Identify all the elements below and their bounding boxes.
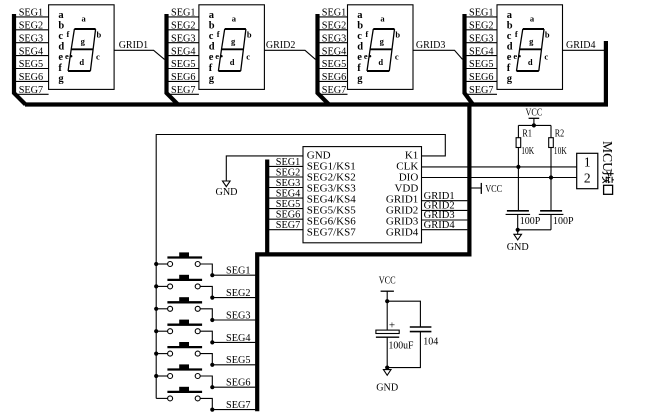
net GRID4 wire at U1 right xyxy=(422,219,468,231)
svg-text:10K: 10K xyxy=(521,146,534,157)
7-segment display DS4 body xyxy=(497,5,563,90)
push button S6 xyxy=(156,364,202,378)
svg-text:100P: 100P xyxy=(520,216,541,227)
ground symbol at U1 GND pin xyxy=(216,156,304,198)
svg-text:c: c xyxy=(58,31,63,42)
svg-text:f: f xyxy=(357,63,361,74)
svg-text:b: b xyxy=(395,30,400,40)
svg-text:SEG5: SEG5 xyxy=(322,58,347,70)
net SEG3 wire from S3 to key bus xyxy=(200,309,255,322)
net GRID2 wire from DS2 xyxy=(264,39,315,59)
svg-text:GRID2: GRID2 xyxy=(266,39,296,51)
svg-text:b: b xyxy=(58,21,64,32)
svg-text:e: e xyxy=(507,52,512,63)
svg-text:VCC: VCC xyxy=(485,184,502,195)
svg-text:d: d xyxy=(209,42,215,53)
svg-text:SEG4: SEG4 xyxy=(19,45,44,57)
svg-text:e: e xyxy=(513,51,517,61)
svg-text:SEG6: SEG6 xyxy=(19,71,44,83)
net SEG3 pin of DS4 xyxy=(465,32,498,44)
net SEG2 pin of DS1 xyxy=(14,20,49,32)
junction at C1 bottom xyxy=(516,228,520,232)
svg-text:SEG3: SEG3 xyxy=(322,32,347,44)
svg-text:d: d xyxy=(507,42,513,53)
svg-text:f: f xyxy=(365,29,368,39)
svg-text:d: d xyxy=(79,57,84,67)
net SEG4 wire from S4 to key bus xyxy=(200,331,255,344)
bus: horizontal main bus with GRID4 stub at right xyxy=(25,41,606,105)
net SEG6 pin of DS4 xyxy=(465,71,498,83)
svg-text:g: g xyxy=(209,73,215,84)
power VCC terminal at VDD pin xyxy=(472,183,503,195)
junction R2 on DIO net xyxy=(549,175,553,179)
net SEG5 pin of DS3 xyxy=(318,58,348,70)
junction on key rail row 6 xyxy=(154,374,158,378)
svg-text:SEG7: SEG7 xyxy=(19,84,44,96)
bus: display DS2 segment bus xyxy=(167,14,179,105)
push button S3 xyxy=(156,297,202,311)
svg-text:e: e xyxy=(65,51,69,61)
net GRID4 wire from DS4 xyxy=(563,39,606,51)
svg-text:SEG3: SEG3 xyxy=(469,32,494,44)
svg-text:g: g xyxy=(81,36,86,46)
svg-text:c: c xyxy=(395,52,399,62)
svg-text:b: b xyxy=(507,21,513,32)
svg-text:d: d xyxy=(528,57,533,67)
net SEG4 pin of DS4 xyxy=(465,45,498,57)
svg-text:d: d xyxy=(378,57,383,67)
svg-text:f: f xyxy=(58,63,62,74)
svg-text:c: c xyxy=(507,31,512,42)
svg-text:g: g xyxy=(231,36,236,46)
bus: vertical GRID bus right of U1, down and left to key bus xyxy=(257,105,469,412)
svg-text:f: f xyxy=(217,29,220,39)
net GRID3 wire at U1 right xyxy=(422,209,468,221)
svg-text:VCC: VCC xyxy=(526,107,543,118)
svg-text:SEG2: SEG2 xyxy=(226,287,251,299)
net GRID3 wire from DS3 xyxy=(413,39,463,59)
net SEG2 wire from S2 to key bus xyxy=(200,286,255,299)
wire VCC to R1 R2 tops xyxy=(518,124,551,126)
svg-text:d: d xyxy=(58,42,64,53)
svg-text:SEG7: SEG7 xyxy=(171,84,196,96)
svg-text:GRID4: GRID4 xyxy=(386,226,419,238)
svg-text:SEG5: SEG5 xyxy=(226,354,251,366)
svg-text:VCC: VCC xyxy=(379,276,396,287)
wire VCC node to C4 branch xyxy=(387,301,420,327)
junction R1 on CLK net xyxy=(516,165,520,169)
bus: display DS4 segment bus xyxy=(465,14,474,105)
push button S5 xyxy=(156,342,202,356)
svg-text:MCU: MCU xyxy=(600,141,615,172)
net SEG3 pin of DS1 xyxy=(14,32,49,44)
svg-text:g: g xyxy=(507,73,513,84)
svg-text:SEG6: SEG6 xyxy=(469,71,494,83)
svg-text:SEG3: SEG3 xyxy=(19,32,44,44)
junction on key rail row 1 xyxy=(154,262,158,266)
svg-text:f: f xyxy=(209,63,213,74)
svg-text:b: b xyxy=(545,30,550,40)
svg-text:b: b xyxy=(209,21,215,32)
net SEG1 pin of DS1 xyxy=(14,7,49,19)
capacitor C2 100P xyxy=(539,211,574,230)
net SEG5 wire from S5 to key bus xyxy=(200,354,255,367)
svg-text:R2: R2 xyxy=(555,128,565,139)
svg-text:g: g xyxy=(357,73,363,84)
net SEG4 pin of DS3 xyxy=(318,45,348,57)
7-segment display DS2 body xyxy=(199,5,265,90)
svg-text:SEG6: SEG6 xyxy=(171,71,196,83)
capacitor C1 100P xyxy=(506,211,541,230)
resistor R2 10K xyxy=(549,125,567,210)
svg-text:a: a xyxy=(209,10,215,21)
junction on key rail row 5 xyxy=(154,352,158,356)
net SEG6 wire from S6 to key bus xyxy=(200,376,255,389)
svg-text:f: f xyxy=(515,29,518,39)
svg-text:c: c xyxy=(246,52,250,62)
svg-text:e: e xyxy=(209,52,214,63)
svg-text:g: g xyxy=(380,36,385,46)
junction on key rail row 4 xyxy=(154,329,158,333)
svg-text:c: c xyxy=(544,52,548,62)
net GRID2 wire at U1 right xyxy=(422,200,468,212)
svg-text:SEG1: SEG1 xyxy=(171,7,196,19)
svg-text:GRID4: GRID4 xyxy=(424,219,455,231)
svg-text:2: 2 xyxy=(584,170,591,185)
svg-text:1: 1 xyxy=(584,154,591,169)
svg-text:SEG1: SEG1 xyxy=(469,7,494,19)
7-segment display DS1 body xyxy=(49,5,115,90)
net SEG5 wire at U1 left xyxy=(267,198,303,210)
svg-text:a: a xyxy=(232,13,237,23)
net CLK wire U1 to MCU connector pin 1 xyxy=(422,166,577,168)
label MCU interface (rotated) xyxy=(600,141,615,194)
svg-text:GND: GND xyxy=(216,187,238,198)
svg-text:e: e xyxy=(364,51,368,61)
net SEG2 pin of DS2 xyxy=(167,20,199,32)
svg-text:SEG5: SEG5 xyxy=(171,58,196,70)
svg-text:SEG7: SEG7 xyxy=(469,84,494,96)
svg-text:g: g xyxy=(58,73,64,84)
net SEG2 pin of DS3 xyxy=(318,20,348,32)
svg-text:SEG4: SEG4 xyxy=(171,45,196,57)
net SEG7 wire at U1 left xyxy=(267,219,303,231)
ground symbol below C1 C2 xyxy=(507,230,529,253)
net SEG1 pin of DS3 xyxy=(318,7,348,19)
push button S2 xyxy=(156,275,202,289)
svg-text:b: b xyxy=(97,30,102,40)
svg-text:d: d xyxy=(230,57,235,67)
svg-text:10K: 10K xyxy=(554,146,567,157)
svg-text:c: c xyxy=(96,52,100,62)
net SEG6 wire at U1 left xyxy=(267,209,303,221)
svg-text:SEG6: SEG6 xyxy=(322,71,347,83)
svg-text:b: b xyxy=(357,21,363,32)
svg-text:GND: GND xyxy=(376,383,398,394)
svg-text:100P: 100P xyxy=(553,216,574,227)
net SEG6 pin of DS2 xyxy=(167,71,199,83)
svg-text:SEG5: SEG5 xyxy=(19,58,44,70)
svg-text:b: b xyxy=(247,30,252,40)
junction at VCC / R1 R2 xyxy=(532,123,536,127)
svg-text:SEG2: SEG2 xyxy=(171,20,196,32)
svg-text:SEG6: SEG6 xyxy=(226,377,251,389)
resistor R1 10K xyxy=(516,125,534,210)
junction at C3 bottom xyxy=(385,366,389,370)
net SEG5 pin of DS1 xyxy=(14,58,49,70)
svg-text:SEG4: SEG4 xyxy=(469,45,494,57)
net SEG6 pin of DS3 xyxy=(318,71,348,83)
7-segment display DS3 body xyxy=(348,5,414,90)
bus: display DS3 segment bus xyxy=(318,14,330,105)
IC U1 (LED driver) body xyxy=(303,147,422,243)
svg-text:GRID4: GRID4 xyxy=(566,39,596,51)
svg-text:a: a xyxy=(81,13,86,23)
net SEG2 pin of DS4 xyxy=(465,20,498,32)
svg-text:104: 104 xyxy=(423,336,439,347)
svg-text:GND: GND xyxy=(507,242,529,253)
net DIO wire U1 to MCU connector pin 2 xyxy=(422,177,577,179)
net SEG3 wire at U1 left xyxy=(267,177,303,189)
push button S1 xyxy=(156,252,202,266)
svg-text:SEG7/KS7: SEG7/KS7 xyxy=(307,226,356,238)
svg-text:g: g xyxy=(529,36,534,46)
svg-text:e: e xyxy=(357,52,362,63)
svg-text:SEG1: SEG1 xyxy=(226,265,251,277)
svg-text:SEG2: SEG2 xyxy=(469,20,494,32)
svg-text:a: a xyxy=(380,13,385,23)
junction on key rail row 2 xyxy=(154,284,158,288)
svg-text:GRID3: GRID3 xyxy=(416,39,446,51)
svg-text:SEG7: SEG7 xyxy=(322,84,347,96)
net SEG6 pin of DS1 xyxy=(14,71,49,83)
ground symbol below C3 C4 xyxy=(376,370,398,394)
junction VCC node xyxy=(385,299,389,303)
svg-text:c: c xyxy=(209,31,214,42)
net SEG3 pin of DS3 xyxy=(318,32,348,44)
svg-text:SEG4: SEG4 xyxy=(322,45,347,57)
svg-text:a: a xyxy=(530,13,535,23)
net SEG1 pin of DS2 xyxy=(167,7,199,19)
net SEG1 wire at U1 left xyxy=(267,156,303,168)
svg-text:a: a xyxy=(357,10,363,21)
net K1 wire: from U1 K1 pin around to key column rail xyxy=(156,135,445,399)
svg-text:f: f xyxy=(507,63,511,74)
svg-text:SEG7: SEG7 xyxy=(276,219,301,231)
svg-text:SEG3: SEG3 xyxy=(226,309,251,321)
svg-text:SEG5: SEG5 xyxy=(469,58,494,70)
svg-text:SEG2: SEG2 xyxy=(19,20,44,32)
svg-text:SEG1: SEG1 xyxy=(322,7,347,19)
svg-text:a: a xyxy=(58,10,64,21)
svg-text:c: c xyxy=(357,31,362,42)
power VCC symbol above C3 C4 xyxy=(379,276,396,302)
net SEG2 wire at U1 left xyxy=(267,167,303,179)
net SEG3 pin of DS2 xyxy=(167,32,199,44)
connector J1 MCU interface xyxy=(577,153,598,188)
bus: display DS1 segment bus xyxy=(14,14,26,105)
svg-text:SEG2: SEG2 xyxy=(322,20,347,32)
capacitor C3 100uF electrolytic xyxy=(376,301,414,367)
svg-text:a: a xyxy=(507,10,513,21)
net SEG1 pin of DS4 xyxy=(465,7,498,19)
wire C1 C2 bottoms to ground xyxy=(518,229,551,231)
push button S4 xyxy=(156,320,202,334)
net SEG7 pin of DS1 xyxy=(14,84,49,96)
svg-text:SEG4: SEG4 xyxy=(226,332,251,344)
svg-text:e: e xyxy=(215,51,219,61)
net GRID1 wire from DS1 xyxy=(114,39,164,59)
net SEG7 pin of DS4 xyxy=(465,84,498,96)
push button S7 xyxy=(156,387,202,401)
svg-text:SEG3: SEG3 xyxy=(171,32,196,44)
svg-text:f: f xyxy=(66,29,69,39)
svg-text:SEG7: SEG7 xyxy=(226,399,251,411)
bus: segment bus left of U1 xyxy=(265,160,269,257)
svg-text:R1: R1 xyxy=(522,128,532,139)
net SEG4 pin of DS1 xyxy=(14,45,49,57)
net SEG4 pin of DS2 xyxy=(167,45,199,57)
net SEG7 pin of DS3 xyxy=(318,84,348,96)
net SEG5 pin of DS2 xyxy=(167,58,199,70)
net SEG1 wire from S1 to key bus xyxy=(200,264,255,277)
svg-text:GRID1: GRID1 xyxy=(119,39,149,51)
net GRID1 wire at U1 right xyxy=(422,190,468,202)
net SEG7 pin of DS2 xyxy=(167,84,199,96)
net SEG7 wire from S7 to key bus xyxy=(200,398,255,411)
net SEG4 wire at U1 left xyxy=(267,188,303,200)
svg-text:SEG1: SEG1 xyxy=(19,7,44,19)
svg-text:d: d xyxy=(357,42,363,53)
junction on key rail row 3 xyxy=(154,307,158,311)
net SEG5 pin of DS4 xyxy=(465,58,498,70)
power VCC symbol above R1 R2 xyxy=(526,107,543,125)
svg-text:e: e xyxy=(58,52,63,63)
svg-text:100uF: 100uF xyxy=(389,340,414,351)
capacitor C4 104 xyxy=(387,327,439,368)
